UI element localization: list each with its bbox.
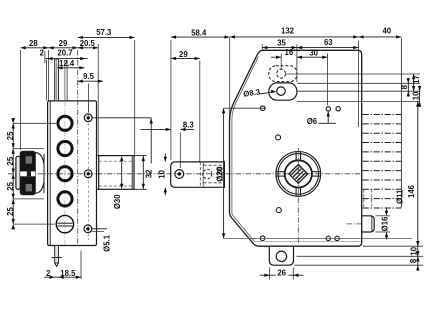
svg-text:26: 26	[277, 269, 286, 278]
svg-text:12.4: 12.4	[59, 59, 75, 68]
svg-text:10: 10	[411, 91, 420, 100]
svg-text:146: 146	[407, 184, 416, 198]
svg-text:29: 29	[179, 50, 188, 59]
svg-text:Ø11: Ø11	[396, 189, 405, 204]
svg-text:8: 8	[400, 84, 409, 89]
svg-text:2: 2	[46, 269, 51, 278]
svg-text:25: 25	[6, 207, 15, 216]
svg-text:2: 2	[40, 49, 45, 58]
svg-text:32: 32	[144, 169, 153, 178]
svg-text:10: 10	[157, 169, 166, 178]
svg-text:30: 30	[309, 48, 318, 57]
svg-text:Ø16: Ø16	[381, 216, 390, 231]
svg-text:29: 29	[59, 39, 68, 48]
svg-text:35: 35	[277, 38, 286, 47]
svg-text:8.3: 8.3	[183, 121, 195, 130]
svg-text:18.5: 18.5	[60, 269, 76, 278]
svg-text:25: 25	[6, 131, 15, 140]
svg-text:132: 132	[281, 27, 295, 36]
svg-text:25: 25	[6, 181, 15, 190]
svg-text:57.3: 57.3	[96, 28, 112, 37]
svg-text:8: 8	[409, 258, 418, 263]
svg-text:9.5: 9.5	[83, 72, 95, 81]
svg-text:28: 28	[29, 39, 38, 48]
svg-text:Ø5.1: Ø5.1	[102, 234, 111, 252]
svg-text:16: 16	[285, 48, 294, 57]
svg-text:40: 40	[382, 27, 391, 36]
svg-text:Ø30: Ø30	[113, 194, 122, 209]
svg-text:10: 10	[409, 246, 418, 255]
svg-text:Ø6: Ø6	[307, 117, 318, 126]
svg-text:130: 130	[216, 166, 225, 180]
svg-text:63: 63	[324, 38, 333, 47]
svg-text:20.5: 20.5	[80, 39, 96, 48]
svg-text:25: 25	[6, 156, 15, 165]
svg-text:17: 17	[412, 75, 421, 84]
svg-text:58.4: 58.4	[191, 29, 207, 38]
svg-text:20.7: 20.7	[57, 49, 72, 58]
